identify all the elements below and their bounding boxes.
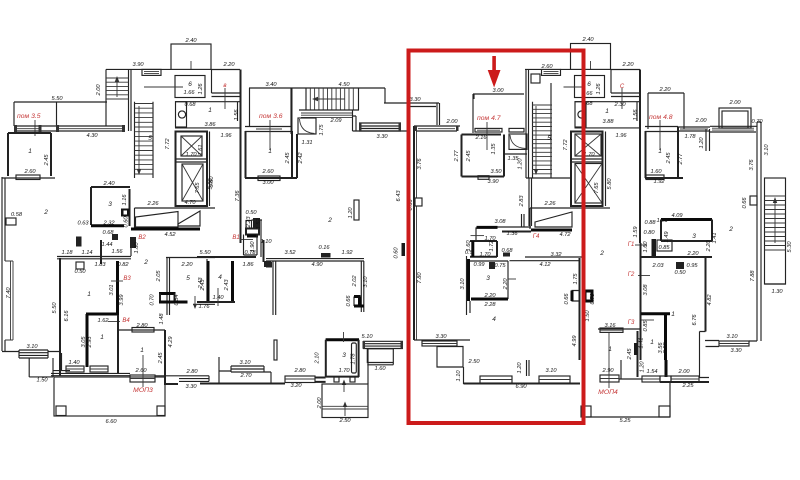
- svg-text:3.10: 3.10: [545, 368, 557, 374]
- svg-text:Г2: Г2: [628, 272, 635, 278]
- outer left wall (double): [2, 177, 5, 351]
- svg-text:3.76: 3.76: [749, 159, 755, 171]
- porch pier b: [659, 406, 670, 417]
- svg-text:0.82: 0.82: [117, 262, 129, 268]
- lift overrun box top-right section: [571, 44, 611, 70]
- svg-text:1.40: 1.40: [212, 295, 224, 301]
- svg-text:2.40: 2.40: [581, 37, 594, 43]
- svg-text:2.02: 2.02: [352, 275, 358, 288]
- facade window 2.00 left of unit: [414, 126, 460, 131]
- svg-text:2.60: 2.60: [540, 64, 553, 70]
- svg-text:1.20: 1.20: [699, 137, 705, 149]
- svg-text:0.70: 0.70: [590, 293, 596, 305]
- svg-text:2.80: 2.80: [185, 369, 198, 375]
- room3 center walls: [326, 338, 359, 341]
- stair1 arrow up: [116, 80, 118, 97]
- wall step right of stair: [353, 110, 408, 131]
- svg-text:В3: В3: [123, 276, 131, 282]
- пом3.6 room bottom: [245, 177, 297, 179]
- room 3 dark door: [489, 262, 495, 269]
- svg-text:1.54: 1.54: [646, 369, 657, 375]
- svg-text:3.76: 3.76: [417, 158, 423, 170]
- svg-text:5: 5: [148, 135, 152, 142]
- shaft outer double wall: [209, 132, 211, 207]
- wall x291 corridor: [291, 88, 293, 134]
- elevator cab 2: [182, 164, 203, 201]
- wall: [130, 240, 132, 256]
- svg-text:2.20: 2.20: [503, 278, 509, 291]
- svg-text:3.30: 3.30: [376, 134, 388, 140]
- door jamb dark center: [266, 262, 272, 268]
- window 3.30 unit: [422, 341, 457, 346]
- leader С: [621, 88, 623, 109]
- svg-text:6.16: 6.16: [64, 310, 70, 322]
- box 0.66 niche at x580: [572, 291, 580, 302]
- пом3.6 window top: [245, 127, 292, 132]
- wall 1.56 right: [636, 102, 638, 121]
- elevator cab 1: [181, 136, 202, 156]
- svg-text:5.50: 5.50: [51, 96, 63, 102]
- bath В3 wall: [116, 261, 119, 315]
- svg-text:1.75: 1.75: [319, 124, 325, 136]
- svg-text:1.26: 1.26: [198, 83, 204, 95]
- central stair sides: [306, 88, 359, 110]
- elevator cab 4: [575, 164, 602, 204]
- svg-text:0.50: 0.50: [245, 210, 257, 216]
- dim line 3.00: [473, 94, 524, 99]
- corridor top wall right end: [641, 256, 712, 258]
- svg-text:1.78: 1.78: [684, 134, 696, 140]
- wall right of В4: [117, 315, 119, 373]
- stair3 sides: [526, 83, 570, 178]
- stair enclosure wall double: [526, 69, 529, 178]
- toilet stall: [176, 102, 187, 127]
- svg-text:0.75: 0.75: [494, 263, 506, 269]
- svg-text:2.32: 2.32: [102, 221, 115, 227]
- svg-text:3.30: 3.30: [409, 97, 421, 103]
- central stair arrow: [316, 98, 345, 100]
- external stair bottom line: [765, 283, 787, 285]
- balcony box 1.60: [367, 349, 393, 365]
- window 3.10 bottom right: [719, 341, 749, 346]
- room3 right end walls: [661, 218, 712, 221]
- svg-text:2.00: 2.00: [317, 397, 323, 410]
- svg-text:4.12: 4.12: [539, 262, 551, 268]
- jog wall: [700, 332, 710, 378]
- svg-text:1.70: 1.70: [338, 368, 350, 374]
- svg-text:4.70: 4.70: [184, 200, 196, 206]
- ramp 1: [136, 212, 179, 228]
- window 3.16: [598, 328, 641, 330]
- svg-text:0.95: 0.95: [686, 263, 698, 269]
- пом4.8 window band top: [645, 127, 678, 132]
- dark door sliver: [503, 253, 510, 257]
- svg-text:0.50: 0.50: [74, 269, 86, 275]
- svg-text:0.60: 0.60: [394, 247, 400, 259]
- svg-text:1.80: 1.80: [134, 242, 140, 254]
- svg-text:пом 3.6: пом 3.6: [259, 113, 283, 120]
- svg-text:1.23: 1.23: [656, 218, 668, 224]
- svg-text:1: 1: [658, 148, 662, 155]
- room 3 thick bottom: [471, 298, 508, 301]
- corridor double V: [522, 214, 525, 227]
- svg-text:7.40: 7.40: [6, 287, 12, 299]
- porch center: [322, 384, 368, 418]
- svg-text:2.00: 2.00: [728, 100, 741, 106]
- leader пом4.7: [486, 122, 488, 150]
- bath В4 walls: [86, 314, 118, 367]
- svg-text:2.60: 2.60: [134, 368, 147, 374]
- svg-text:2.00: 2.00: [445, 119, 458, 125]
- svg-text:1.20: 1.20: [518, 158, 524, 170]
- svg-text:2.05: 2.05: [156, 270, 162, 283]
- room walls Г3: [641, 314, 670, 360]
- svg-text:0.68: 0.68: [184, 102, 196, 108]
- wall x580: [579, 258, 581, 360]
- svg-text:пом 3.5: пом 3.5: [17, 113, 41, 120]
- svg-text:4.50: 4.50: [338, 82, 350, 88]
- svg-text:0.66: 0.66: [564, 293, 570, 305]
- svg-text:1.50: 1.50: [585, 310, 591, 322]
- fixture dark bit: [112, 234, 118, 240]
- svg-text:5: 5: [547, 135, 551, 142]
- svg-text:5.80: 5.80: [208, 178, 214, 190]
- hall bottom wall: [175, 127, 241, 129]
- window joint block: [660, 376, 671, 382]
- svg-text:3.30: 3.30: [435, 334, 447, 340]
- svg-text:7.72: 7.72: [563, 139, 569, 151]
- svg-text:3.30: 3.30: [730, 348, 742, 354]
- wall right of МОП4: [619, 360, 642, 379]
- svg-text:1.56: 1.56: [234, 109, 240, 121]
- svg-text:1: 1: [608, 346, 612, 353]
- svg-text:В2: В2: [138, 235, 146, 241]
- entry arrow: [343, 383, 345, 392]
- svg-text:3.50: 3.50: [490, 169, 502, 175]
- svg-text:2.20: 2.20: [180, 262, 193, 268]
- svg-text:1.92: 1.92: [341, 250, 353, 256]
- svg-text:1.78: 1.78: [351, 353, 357, 365]
- svg-text:1.60: 1.60: [643, 241, 649, 253]
- svg-text:2.45: 2.45: [285, 152, 291, 165]
- shaft outer double wall right: [605, 132, 607, 207]
- svg-text:4.90: 4.90: [311, 262, 323, 268]
- stair2 treads: [135, 104, 154, 175]
- svg-text:7.88: 7.88: [750, 270, 756, 282]
- svg-text:3.10: 3.10: [726, 334, 738, 340]
- svg-text:1: 1: [605, 108, 609, 115]
- svg-text:5.50: 5.50: [199, 250, 211, 256]
- corridor top wall right of unit: [510, 257, 583, 261]
- Г1 leader: [635, 244, 647, 246]
- svg-text:2.93: 2.93: [87, 336, 93, 349]
- svg-text:2.43: 2.43: [224, 279, 230, 292]
- svg-text:3.10: 3.10: [239, 360, 251, 366]
- svg-text:2.60: 2.60: [23, 169, 36, 175]
- пом4.7 room walls: [462, 135, 505, 177]
- bathtub edge: [352, 343, 357, 373]
- svg-text:2.30: 2.30: [613, 102, 626, 108]
- svg-text:2.83: 2.83: [519, 195, 525, 208]
- right outer wall (double): [757, 122, 761, 341]
- svg-text:3.10: 3.10: [460, 278, 466, 290]
- stair2 left enclosure: [135, 102, 154, 178]
- window 2.00 bottom: [671, 376, 699, 382]
- svg-text:3.01: 3.01: [109, 284, 115, 295]
- wall with window 2.80: [118, 329, 165, 331]
- svg-text:1.60: 1.60: [650, 169, 662, 175]
- svg-text:1.10: 1.10: [456, 370, 462, 382]
- window 3.10 right: [539, 376, 570, 383]
- leader room6 right: [564, 86, 583, 88]
- svg-text:4.52: 4.52: [164, 232, 176, 238]
- elevator divider right: [571, 159, 603, 162]
- svg-text:6.60: 6.60: [105, 419, 117, 425]
- dark wall stub: [665, 360, 668, 377]
- bottom wall right end: [660, 381, 709, 383]
- svg-text:3.52: 3.52: [284, 250, 296, 256]
- svg-text:6.76: 6.76: [692, 314, 698, 326]
- room 3 dark niche: [121, 209, 130, 217]
- room 5 right wall: [206, 259, 208, 302]
- svg-text:1.20: 1.20: [348, 207, 354, 219]
- svg-text:МОП4: МОП4: [598, 389, 618, 396]
- leader room6: [144, 86, 183, 88]
- svg-text:1.90: 1.90: [250, 241, 256, 253]
- svg-text:2.20: 2.20: [222, 62, 235, 68]
- svg-text:2.16: 2.16: [474, 135, 487, 141]
- svg-text:3.08: 3.08: [494, 219, 506, 225]
- bay window top right: [719, 108, 751, 128]
- main wall x640: [639, 70, 641, 244]
- bottom windows row unit: [414, 339, 470, 341]
- wall top corridor (double): [57, 257, 131, 259]
- central facade window band: [359, 123, 401, 131]
- window band upper-left facade: [14, 126, 125, 131]
- svg-text:2.90: 2.90: [601, 368, 614, 374]
- svg-text:3: 3: [108, 201, 112, 208]
- room 5 left double wall: [167, 257, 170, 315]
- step box bottom left of unit: [437, 347, 464, 385]
- bar 1.20: [354, 200, 359, 220]
- stair landing box: [531, 74, 540, 83]
- svg-text:1: 1: [208, 107, 212, 114]
- svg-text:1.66: 1.66: [183, 90, 195, 96]
- bath Г4 left dark wall: [471, 241, 474, 257]
- room 3 unit walls: [470, 261, 508, 299]
- svg-text:3.90: 3.90: [487, 179, 499, 185]
- В1 leader: [240, 239, 253, 241]
- svg-text:2.45: 2.45: [666, 152, 672, 165]
- пом4.8 room walls: [645, 127, 683, 178]
- bath Г4 thick wall: [467, 259, 470, 301]
- МОП4 window: [600, 375, 619, 382]
- svg-text:0.54: 0.54: [174, 294, 180, 305]
- porch right section: [586, 382, 670, 417]
- arrow marker (red, pointing down at selected unit): [488, 56, 501, 88]
- hall bottom wall right: [575, 127, 641, 129]
- svg-text:1.16: 1.16: [122, 194, 128, 206]
- svg-text:1.20: 1.20: [640, 361, 646, 373]
- svg-text:4.82: 4.82: [707, 294, 713, 306]
- svg-text:0.60: 0.60: [124, 216, 130, 228]
- lower center walls (double): [266, 259, 364, 315]
- svg-text:2.09: 2.09: [329, 118, 342, 124]
- window bottom пом4.8: [646, 175, 664, 180]
- wall right of room3: [367, 349, 369, 384]
- svg-text:1: 1: [87, 291, 91, 298]
- svg-text:0.70: 0.70: [150, 294, 156, 306]
- svg-text:4.30: 4.30: [86, 133, 98, 139]
- svg-text:2.00: 2.00: [677, 369, 690, 375]
- svg-text:1.49: 1.49: [664, 231, 670, 243]
- svg-text:1.86: 1.86: [242, 262, 254, 268]
- wall: [100, 240, 102, 264]
- window end posts top band: [14, 125, 17, 132]
- МОП4 leader: [608, 333, 610, 388]
- stair2 arrow down: [138, 106, 140, 171]
- svg-text:3.08: 3.08: [643, 284, 649, 296]
- facade window 2.00 right: [710, 126, 757, 132]
- wall from stair to right: [384, 88, 439, 103]
- svg-text:2: 2: [599, 250, 604, 257]
- svg-text:3.30: 3.30: [185, 384, 197, 390]
- svg-text:2.60: 2.60: [261, 169, 274, 175]
- svg-text:4.09: 4.09: [671, 213, 683, 219]
- svg-text:1.96: 1.96: [615, 133, 627, 139]
- svg-text:1.31: 1.31: [301, 140, 312, 146]
- room 1 walls (пом3.5 lower): [8, 133, 51, 176]
- wall leader into unit: [472, 94, 474, 133]
- МОП3 base line: [131, 228, 200, 231]
- svg-text:2.45: 2.45: [44, 154, 50, 167]
- external stair right: [765, 178, 786, 284]
- svg-text:1.76: 1.76: [198, 304, 210, 310]
- svg-text:1: 1: [671, 311, 675, 318]
- partition above window: [527, 360, 530, 376]
- svg-text:3: 3: [692, 233, 696, 240]
- svg-text:1.70: 1.70: [479, 252, 491, 258]
- svg-text:5.25: 5.25: [619, 418, 631, 424]
- svg-text:1.56: 1.56: [633, 109, 639, 121]
- svg-text:2.26: 2.26: [146, 201, 159, 207]
- room в walls: [211, 70, 240, 97]
- toilet: [178, 111, 185, 118]
- svg-text:в: в: [223, 83, 226, 89]
- window 2.80: [132, 328, 154, 333]
- svg-text:3.10: 3.10: [764, 144, 770, 156]
- svg-text:0.16: 0.16: [318, 245, 330, 251]
- window 6.90: [480, 376, 512, 383]
- main entrance porch: [54, 377, 165, 416]
- room 4 bottom: [197, 301, 235, 303]
- МОП3 leader: [142, 355, 144, 387]
- svg-text:0.88: 0.88: [644, 220, 656, 226]
- svg-text:3.40: 3.40: [265, 82, 277, 88]
- corridor line below elevators right: [530, 208, 610, 229]
- unit left outer wall (double): [413, 126, 415, 340]
- hall top wall right: [575, 101, 641, 103]
- corridor wall: [197, 256, 256, 258]
- svg-text:1: 1: [28, 148, 32, 155]
- svg-text:1.52: 1.52: [256, 218, 262, 230]
- wall 1.56: [237, 102, 239, 121]
- svg-text:Г3: Г3: [628, 320, 635, 326]
- svg-text:7.65: 7.65: [594, 182, 600, 194]
- МОП4 base line: [531, 229, 572, 232]
- svg-text:1.83: 1.83: [94, 262, 106, 268]
- svg-text:2.25: 2.25: [681, 383, 694, 389]
- step double wall: [409, 103, 440, 125]
- svg-text:Г1: Г1: [628, 242, 635, 248]
- svg-text:2.10: 2.10: [315, 352, 321, 365]
- box 0.66 unit wall: [415, 198, 422, 206]
- svg-text:2.20: 2.20: [658, 87, 671, 93]
- svg-text:2: 2: [143, 259, 148, 266]
- svg-text:2.80: 2.80: [135, 323, 148, 329]
- svg-text:5.30: 5.30: [787, 241, 793, 253]
- svg-text:3.88: 3.88: [602, 119, 614, 125]
- svg-text:1.14: 1.14: [81, 250, 92, 256]
- svg-text:0.70: 0.70: [751, 119, 763, 125]
- svg-text:2.28: 2.28: [483, 302, 496, 308]
- svg-text:2.03: 2.03: [651, 263, 664, 269]
- porch left box: [29, 353, 70, 377]
- stair3 treads: [532, 105, 552, 174]
- room 3 left walls: [91, 187, 130, 226]
- wall top of пом3.5: [14, 101, 107, 103]
- svg-text:1.70: 1.70: [185, 152, 197, 158]
- svg-text:3.99: 3.99: [119, 294, 125, 306]
- room в right walls: [611, 70, 641, 97]
- svg-text:0.50: 0.50: [674, 270, 686, 276]
- пом4.7 window bottom: [478, 176, 489, 180]
- пом4.7 window top a: [475, 128, 502, 132]
- ramp 2: [178, 211, 200, 226]
- svg-text:2.50: 2.50: [338, 418, 351, 424]
- svg-text:В4: В4: [122, 318, 130, 324]
- svg-text:2.40: 2.40: [184, 38, 197, 44]
- stair1 treads: [106, 78, 129, 99]
- ramp right: [535, 212, 572, 227]
- svg-text:2.42: 2.42: [298, 152, 304, 165]
- В4 leader: [108, 321, 120, 323]
- room 6 right: [575, 76, 605, 98]
- svg-text:1.70: 1.70: [484, 236, 496, 242]
- svg-text:В1: В1: [232, 235, 239, 241]
- room 4 walls: [208, 261, 233, 302]
- svg-text:2.80: 2.80: [293, 368, 306, 374]
- svg-text:7.36: 7.36: [235, 190, 241, 202]
- Г2 leader: [638, 275, 650, 277]
- bottom wall segments: [51, 373, 179, 375]
- radiator dark bar: [634, 343, 638, 355]
- svg-text:7.72: 7.72: [165, 138, 171, 150]
- svg-text:1.56: 1.56: [111, 249, 123, 255]
- svg-text:1: 1: [140, 347, 144, 354]
- svg-text:С: С: [620, 84, 625, 90]
- dim line 3.40/4.50: [249, 87, 385, 89]
- В1 bath box: [244, 235, 258, 256]
- В1 fixture box: [246, 229, 259, 235]
- Г1 dark jamb bar: [652, 239, 657, 256]
- room3 leader: [343, 332, 345, 342]
- elevator shaft outer: [176, 132, 208, 207]
- elevator shaft divider: [176, 159, 208, 162]
- svg-text:3.86: 3.86: [204, 122, 216, 128]
- wall right of МОП3: [164, 330, 178, 385]
- leader: [471, 235, 485, 237]
